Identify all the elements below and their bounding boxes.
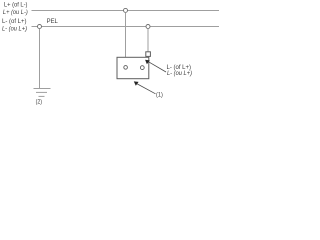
wire L+ (top horizontal): [32, 10, 220, 12]
node on L- wire: [146, 25, 150, 29]
terminal circle 2 inside box: [140, 66, 144, 70]
wire from L+ node down to device terminal: [125, 12, 127, 65]
ground: [34, 89, 51, 97]
terminal PEL: [38, 25, 42, 29]
wire from L- node down to square terminal: [147, 29, 149, 52]
svg-text:L- (ou L+): L- (ou L+): [167, 70, 192, 77]
device box (1): [117, 57, 149, 78]
svg-text:L+ (ou L-): L+ (ou L-): [3, 9, 28, 16]
svg-text:(1): (1): [156, 91, 163, 98]
callout arrow to square terminal: [145, 60, 166, 72]
svg-text:L- (of L+): L- (of L+): [2, 18, 27, 25]
wire L- (second horizontal): [32, 26, 220, 28]
svg-text:L+ (of L-): L+ (of L-): [4, 1, 28, 8]
wire PEL node to ground: [39, 29, 41, 89]
square terminal (top-right of box): [146, 52, 151, 57]
callout label L- (of L+) right: [167, 64, 193, 77]
svg-text:PEL: PEL: [47, 18, 59, 25]
node on L+ wire: [124, 8, 128, 12]
terminal circle 1 inside box: [124, 66, 128, 70]
svg-text:(2): (2): [36, 99, 42, 106]
callout arrow (1) to device box: [134, 81, 156, 93]
label L+ (of L-) top-left: [3, 1, 28, 16]
svg-text:L- (ou L+): L- (ou L+): [2, 25, 27, 32]
label L- (of L+) left: [2, 18, 27, 32]
